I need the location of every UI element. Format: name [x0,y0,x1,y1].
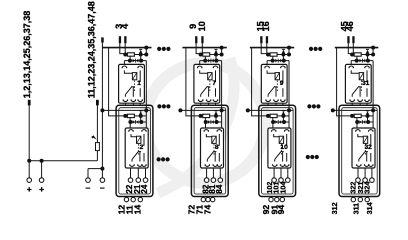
wire [135,54,147,56]
svg-text:−: − [86,183,91,193]
svg-text:11,12,23,24,35,36,47,48: 11,12,23,24,35,36,47,48 [87,1,97,98]
led V1e [133,120,136,124]
diode rail wire down [221,61,223,111]
terminal post 3 [119,36,121,43]
svg-text:46: 46 [345,21,355,31]
diode V2a [215,50,218,53]
relay K8 [201,128,224,168]
terminal 92 [269,197,273,201]
diode V1a [139,50,142,53]
diode bar [277,120,279,124]
diode rail wire down [145,61,147,111]
junction bus2 / diode rail [287,108,291,112]
minus rail [101,37,104,42]
wire socket stub [275,103,277,105]
wire led [272,56,274,60]
wire row [351,60,373,62]
terminal 311 [358,197,362,201]
svg-text:7: 7 [212,80,216,87]
wire [372,110,374,122]
relay K1 [119,64,145,103]
junction minus rail / minus bus [100,167,104,171]
diode bar [135,59,137,63]
diode rail wire down [372,61,374,111]
wire bus to lower relay circuit [109,48,126,116]
svg-text:94: 94 [276,205,286,215]
wire row [357,121,373,123]
wire [145,110,147,122]
relay 32 input circuit [350,114,354,118]
wire to terminal [145,168,147,178]
terminal 74 [211,197,215,201]
terminal 324 [370,178,375,183]
wire to socket [350,61,352,66]
wire to socket [372,122,374,131]
coil of relay K7 [200,70,210,73]
terminal 84 [218,178,223,183]
svg-text:14: 14 [133,205,143,215]
wire to plus terminal 1 [28,161,30,178]
wire to minus terminal 2 [101,169,103,178]
relay 1 input circuit [123,53,127,57]
wire to terminal [206,168,208,178]
bus2 end node [246,108,250,112]
wire to terminal [364,168,366,178]
svg-text:84: 84 [215,184,224,193]
wire to socket [123,61,125,66]
wire row [267,60,289,62]
svg-text:+: + [39,184,44,194]
diode V1c [136,59,139,63]
plus terminal 1 [27,178,32,183]
wire [215,116,217,122]
wire socket stub [132,103,134,105]
wire [362,54,374,56]
junction bus / diode rail [144,46,148,50]
resistor R4a [354,53,361,56]
coil bus wire block 4 [335,47,379,49]
wire [215,55,217,61]
wire terminal 4 down [124,43,126,55]
wire to terminal [212,168,214,178]
diode bar [210,120,212,124]
wire row [130,121,146,123]
junction bus / diode rail [287,46,291,50]
wire led [204,56,206,60]
diode bar [135,120,137,124]
led V3e [275,120,278,124]
terminal 22 [128,178,133,183]
svg-text:324: 324 [363,182,372,194]
diode V2c [211,59,214,63]
wire [140,55,142,61]
terminal 314 [365,197,369,201]
terminal post 10 [201,36,203,43]
wire terminal 3 to coil circuit [120,43,126,55]
wire row [124,60,146,62]
svg-text:+: + [27,184,32,194]
wire led [129,118,131,122]
coil bus wire block 3 [250,47,294,49]
wire socket stub [208,103,210,105]
svg-text:1,2,13,14,25,26,37,38: 1,2,13,14,25,26,37,38 [22,11,32,99]
svg-text:312: 312 [330,202,339,214]
fused feed wire [96,105,98,160]
wire [278,54,290,56]
wire terminal 10 down [201,43,203,55]
led V1b [133,59,136,63]
terminal 104 [286,178,291,183]
wire socket stub [215,103,217,105]
wire to socket [356,122,358,131]
coil of relay K1 [124,70,134,73]
minus bus wire [88,168,102,170]
coil of relay K31 [351,70,361,73]
wire [145,48,147,55]
diode bar [361,59,363,63]
plus terminal 2 [39,178,44,183]
diode V4f [363,120,366,124]
wire to socket [199,61,201,66]
fuse F1 [96,143,100,151]
coil bus wire block 2 [182,47,226,49]
minus terminal 2 [100,178,105,183]
wire [288,110,290,122]
wire bus to lower relay circuit [252,48,268,116]
wire to socket [288,122,290,131]
wire terminal 9 to coil circuit [196,43,201,55]
wire led [356,118,358,122]
contact bus wire [180,109,225,111]
relay 31 input circuit [350,53,354,57]
contact bus wire [248,109,293,111]
module outline block 3 [259,105,296,196]
wire to socket [272,122,274,131]
wire terminal 15 to coil circuit [261,43,268,55]
wire terminal 16 down [266,43,268,55]
terminal 12 [124,197,128,201]
led V2b [208,59,211,63]
wire socket stub [366,103,368,105]
wire [362,115,374,117]
wire [221,110,223,122]
wire socket stub [200,103,202,105]
svg-text:4: 4 [120,23,130,29]
disconnect arrow on fused wire [92,135,97,140]
relay K2 [125,128,148,168]
wire led [129,56,131,60]
coil bus wire block 1 [102,47,151,49]
terminal 322 [356,178,361,183]
junction bus2 / diode rail [371,108,375,112]
terminal post 15 [260,36,262,43]
wire [210,54,222,56]
coil of relay K9 [267,70,277,73]
wire to socket [205,122,207,131]
svg-text:10: 10 [280,144,288,151]
wire [282,55,284,61]
resistor R3a [270,53,277,56]
wire to terminal [371,168,373,178]
wire socket stub [351,103,353,105]
diode V3f [279,120,282,124]
relay K7 [194,64,220,103]
wire led [356,56,358,60]
wire to plus terminal 2 [41,161,43,178]
wire [135,115,147,117]
wire [282,116,284,122]
wire led [272,118,274,122]
diode V3a [282,50,285,53]
wire [288,48,290,55]
wire [367,55,369,61]
wire to minus terminal 1 [87,169,89,178]
wire row [206,121,222,123]
junction minus rail / bus2 [100,108,104,112]
svg-text:31: 31 [362,80,370,87]
relay 8 input circuit [199,114,203,118]
wire led [204,118,206,122]
leader mark for label [96,100,99,106]
terminal 321 [363,178,368,183]
svg-text:9: 9 [280,80,284,87]
svg-text:314: 314 [365,202,374,214]
module outline block 4 [339,105,380,196]
wire to socket [266,61,268,66]
terminal 72 [201,197,205,201]
wire socket stub [282,103,284,105]
wire socket stub [124,103,126,105]
terminal 21 [136,178,141,183]
junction plus bus / terminal 2 [40,159,44,163]
wire [140,116,142,122]
diode V1d [139,111,142,114]
resistor R1b [127,114,134,117]
continuation dots group 1 top [157,47,161,51]
coil of relay K32 [358,134,366,137]
wire terminal 46 down [352,43,354,55]
wire terminal 45 to coil circuit [348,43,352,55]
wire [210,115,222,117]
diode V2f [211,120,214,124]
minus terminal 1 [86,178,91,183]
svg-text:2: 2 [140,144,144,151]
module outline block 1 [116,105,153,196]
terminal post 4 [124,36,126,43]
svg-text:32: 32 [365,144,373,151]
terminal 14 [138,197,142,201]
wire [278,115,290,117]
module outline block 2 [191,105,228,196]
svg-text:10: 10 [197,21,207,31]
terminal post 46 [352,36,354,43]
svg-text:311: 311 [352,203,361,215]
diode bar [277,59,279,63]
wire bus to lower relay circuit [337,48,353,116]
wire [372,48,374,55]
coil of relay K2 [131,134,139,137]
junction bus / diode rail [220,46,224,50]
continuation dots group 2 middle [307,104,311,108]
relay K32 [352,128,375,168]
wire to socket [221,122,223,131]
terminal 101 [279,178,284,183]
relay K31 [345,64,371,103]
wire row [200,60,222,62]
diode bar [210,59,212,63]
led V2e [208,120,211,124]
bus2 end node [331,108,335,112]
terminal 82 [204,178,209,183]
terminal 81 [211,178,216,183]
contact bus wire [102,109,150,111]
wire socket stub [267,103,269,105]
coil of relay K10 [274,134,282,137]
wire row [273,121,289,123]
continuation dots group 1 bottom [157,157,161,161]
diode V4a [366,50,369,53]
diode V3c [279,59,282,63]
wire to terminal [357,168,359,178]
wire to socket [129,122,131,131]
wire to terminal [273,168,275,178]
wire to terminal [219,168,221,178]
background watermark [145,58,265,193]
terminal post 9 [195,36,197,43]
relay K9 [261,64,287,103]
minus rail wire [101,41,103,169]
wire socket stub [139,103,141,105]
terminal 91 [275,197,279,201]
diode bar [361,120,363,124]
terminal post 16 [266,36,268,43]
resistor R3b [270,114,277,117]
relay K10 [268,128,291,168]
leader mark for label [28,100,31,106]
continuation dots group 1 middle [157,104,161,108]
svg-text:24: 24 [140,184,149,193]
svg-text:−: − [100,183,105,193]
diode V3d [282,111,285,114]
svg-text:16: 16 [261,21,271,31]
junction plus bus / terminal 1 [27,159,31,163]
relay 9 input circuit [266,53,270,57]
continuation dots group 2 top [309,47,313,51]
wire bus to lower relay circuit [186,48,201,116]
relay 2 input circuit [123,114,127,118]
bus2 end node [178,108,182,112]
terminal post 45 [347,36,349,43]
wire [367,116,369,122]
terminal 24 [143,178,148,183]
wire + rail from label down to plus bus [28,105,30,160]
led V4b [359,59,362,63]
wire to terminal [287,168,289,178]
relay 10 input circuit [266,114,270,118]
wire [221,48,223,55]
coil of relay K8 [206,134,214,137]
diode V1f [136,120,139,124]
diode V4d [366,111,369,114]
continuation dots group 2 bottom [306,155,310,159]
plus bus wire [29,160,97,162]
contact bus wire [333,109,377,111]
svg-text:104: 104 [279,182,288,194]
wire to terminal [280,168,282,178]
svg-text:8: 8 [215,144,219,151]
resistor R2a [203,53,210,56]
junction bus / diode rail [371,46,375,50]
wire to terminal [137,168,139,178]
relay 7 input circuit [199,53,203,57]
terminal 94 [280,197,284,201]
resistor R2b [203,114,210,117]
svg-text:1: 1 [137,80,141,87]
led V3b [275,59,278,63]
led V4e [359,120,362,124]
diode rail wire down [288,61,290,111]
svg-text:74: 74 [202,205,212,215]
diode V2d [215,111,218,114]
diode V4c [363,59,366,63]
wire to socket [145,122,147,131]
wire to terminal [130,168,132,178]
terminal 102 [272,178,277,183]
terminal 71 [206,197,210,201]
terminal 312 [351,197,355,201]
terminal 11 [131,197,135,201]
junction bus2 / diode rail [144,108,148,112]
wire socket stub [359,103,361,105]
junction bus2 / diode rail [220,108,224,112]
resistor R1a [127,53,134,56]
resistor R4b [354,114,361,117]
